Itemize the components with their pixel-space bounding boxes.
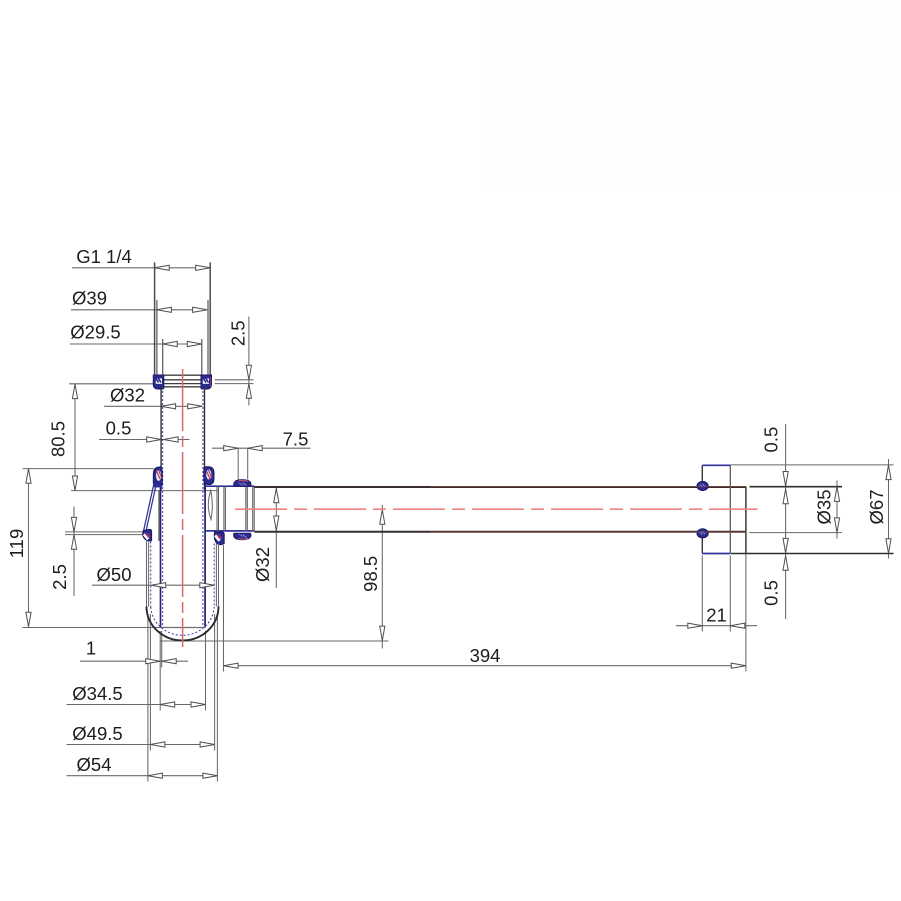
ext verticals below cup: D54 right xyxy=(216,614,218,782)
arrows 21 bowtie xyxy=(688,623,703,628)
svg-text:Ø49.5: Ø49.5 xyxy=(72,723,122,744)
ext verticals below cup: D49.5 left xyxy=(149,614,151,751)
cup liner dotted (blue) xyxy=(151,542,215,609)
svg-text:1: 1 xyxy=(86,638,96,659)
svg-text:Ø39: Ø39 xyxy=(72,288,107,309)
ext verticals below cup: D34.5 right xyxy=(205,631,207,711)
ext line 80.5 bottom / junction shoulder xyxy=(71,490,218,492)
svg-text:21: 21 xyxy=(706,605,727,626)
collar seal left (blue) xyxy=(153,375,164,389)
centerline horizontal (red) xyxy=(235,508,758,510)
arrows D32 upper xyxy=(161,404,176,409)
vertical dim line 2.5 lower xyxy=(73,507,75,597)
svg-text:2.5: 2.5 xyxy=(49,564,70,590)
arrows 80.5 xyxy=(72,384,77,399)
outlet nut seal bottom (blue) xyxy=(234,533,251,540)
centerline vertical (red) xyxy=(182,369,184,647)
junction inner crescent xyxy=(208,490,212,519)
wall flange outline xyxy=(702,465,730,553)
ext line 98.5 bottom xyxy=(160,640,389,642)
svg-text:Ø50: Ø50 xyxy=(97,564,132,585)
threaded inlet pipe outer walls xyxy=(155,262,211,375)
svg-text:Ø34.5: Ø34.5 xyxy=(72,683,122,704)
dim line 0.5 left xyxy=(99,439,190,441)
vertical dim line 119 xyxy=(28,469,30,627)
ext verticals 21 xyxy=(701,556,703,632)
cup cone seal elbow (blue with hatch) xyxy=(143,529,152,541)
arrows 2.5 upper bowtie xyxy=(246,365,251,380)
outlet pipe top edge xyxy=(254,486,746,488)
outlet nut seal top (blue) xyxy=(234,480,251,487)
dim line D54 xyxy=(67,775,218,777)
ext vertical for dim 1 xyxy=(161,631,163,668)
arrows D34.5 xyxy=(160,702,175,707)
trap junction top edge (blue) xyxy=(205,485,255,487)
dim line D50 xyxy=(92,584,214,586)
arrows 1 bowtie xyxy=(146,659,161,664)
outlet pipe bottom edge xyxy=(254,531,746,533)
dim line 1 xyxy=(80,660,188,662)
vertical dim line 98.5 xyxy=(381,505,383,649)
trap junction bottom edge (blue) xyxy=(205,530,254,532)
flange seal ring top (blue) xyxy=(697,481,708,490)
arrows D49.5 xyxy=(150,742,165,747)
dim line D34.5 xyxy=(67,704,206,706)
arrows D32 outlet xyxy=(274,488,279,503)
svg-text:G1 1/4: G1 1/4 xyxy=(76,246,132,267)
svg-text:119: 119 xyxy=(6,529,27,559)
svg-text:Ø32: Ø32 xyxy=(252,547,273,582)
dim line 394 xyxy=(224,665,746,667)
svg-text:0.5: 0.5 xyxy=(106,418,132,439)
arrows 0.5 left bowtie xyxy=(147,437,162,442)
inlet tube walls upper (D32) xyxy=(161,387,204,627)
svg-text:80.5: 80.5 xyxy=(48,421,69,457)
arrows D39 xyxy=(157,307,172,312)
cup outer walls xyxy=(147,541,219,607)
svg-text:394: 394 xyxy=(470,645,501,666)
vertical dim line 0.5 right (through both) xyxy=(785,424,787,619)
arrows 98.5 xyxy=(380,510,385,525)
arrows D50 xyxy=(151,583,166,588)
dim line D32 upper xyxy=(104,405,202,407)
arrows 7.5 bowtie xyxy=(224,446,239,451)
vertical dim line 80.5 xyxy=(74,384,76,491)
arrows 0.5 bottom right bowtie xyxy=(783,538,788,553)
cup bottom inner arc (liner, dotted blue) xyxy=(151,607,215,635)
arrows D54 xyxy=(148,773,163,778)
arrows 119 xyxy=(26,469,31,484)
thread root lines xyxy=(157,300,208,375)
svg-text:2.5: 2.5 xyxy=(227,320,248,346)
thick black extension lines right side xyxy=(731,487,894,554)
cup cone slant (blue double line) xyxy=(144,483,157,531)
ext vertical 394 left xyxy=(223,545,225,672)
arrows G1 1/4 xyxy=(155,265,170,270)
svg-text:Ø29.5: Ø29.5 xyxy=(70,322,120,343)
cup rim hook left (blue) xyxy=(153,467,162,486)
ext lines 2.5 lower left xyxy=(65,531,146,533)
dim line D29.5 xyxy=(70,343,202,345)
outlet pipe end cap xyxy=(745,487,747,554)
ext verticals below cup: D34.5 left xyxy=(159,631,161,711)
arrows 394 xyxy=(224,663,239,668)
svg-text:Ø35: Ø35 xyxy=(813,490,834,525)
svg-text:Ø54: Ø54 xyxy=(77,754,112,775)
collar seal right (blue) xyxy=(201,375,212,389)
inlet bore lines D29.5 xyxy=(163,339,202,375)
ext line D35 top (thick) xyxy=(750,486,843,488)
arrows D29.5 xyxy=(163,341,178,346)
ext vertical 394 right lower xyxy=(745,554,747,672)
ext line 119 bottom xyxy=(23,627,161,629)
pipe edge red-brown tint xyxy=(430,485,746,487)
arrows 0.5 top right bowtie xyxy=(783,472,788,487)
dim line 21 xyxy=(676,625,757,627)
svg-text:Ø32: Ø32 xyxy=(110,385,145,406)
ext line D67 bottom (thick) xyxy=(731,553,894,555)
arrows D67 xyxy=(886,465,891,480)
outlet nut vertical lines xyxy=(217,487,254,531)
dim line G1 1/4 xyxy=(72,267,210,269)
cup neck inner edge line xyxy=(158,491,160,541)
dip tube mouth line xyxy=(160,627,205,629)
svg-text:0.5: 0.5 xyxy=(760,427,781,453)
svg-text:7.5: 7.5 xyxy=(283,429,309,450)
collar flange lines xyxy=(154,375,212,387)
vertical dim line D32 outlet xyxy=(275,488,277,589)
dim line 7.5 xyxy=(212,447,311,449)
vertical dim line 2.5 upper xyxy=(248,317,250,406)
svg-text:98.5: 98.5 xyxy=(360,556,381,592)
cup rim seal right of tube (blue with hatch) xyxy=(214,532,224,545)
cup bottom outer arc xyxy=(147,607,219,641)
ext verticals below cup: D54 left xyxy=(147,614,149,782)
dip tube walls lower (D34.5) xyxy=(161,466,206,627)
ext line 80.5 top xyxy=(69,383,154,385)
vertical dim line D67 xyxy=(888,459,890,559)
arrows 2.5 lower bowtie xyxy=(71,517,76,532)
ext lines 7.5 verticals xyxy=(237,448,239,479)
ext line D35 bottom xyxy=(750,532,843,534)
ext line 119 top xyxy=(23,468,154,470)
dim line D49.5 xyxy=(67,744,215,746)
vertical dim line D35 xyxy=(836,481,838,539)
flange seal ring bottom (blue) xyxy=(697,529,708,538)
svg-text:0.5: 0.5 xyxy=(760,580,781,606)
ext lines 2.5 upper right xyxy=(215,379,254,381)
cup rim hook right (blue) xyxy=(204,467,214,485)
svg-text:Ø67: Ø67 xyxy=(866,490,887,525)
arrows D35 xyxy=(834,487,839,502)
ext verticals below cup: D49.5 right xyxy=(214,614,216,751)
ext line D67 top xyxy=(730,464,893,466)
dim line D39 xyxy=(71,309,207,311)
